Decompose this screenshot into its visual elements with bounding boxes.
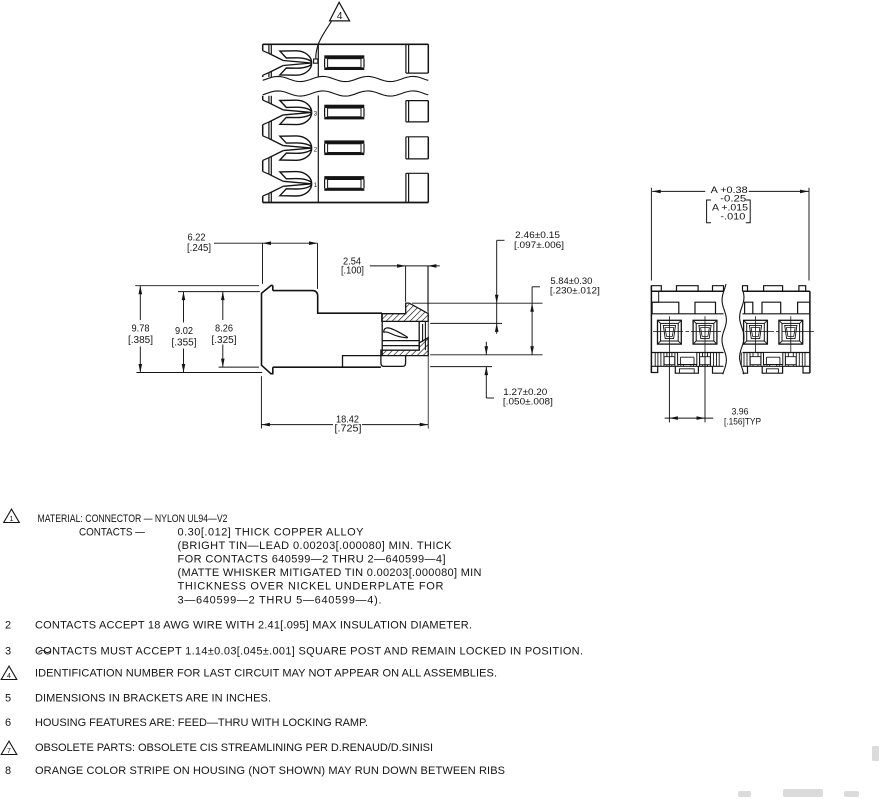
svg-text:4: 4 (7, 673, 11, 680)
svg-text:MATERIAL: CONNECTOR — NYLON UL: MATERIAL: CONNECTOR — NYLON UL94—V2 (38, 513, 228, 525)
rib section 4 (762, 302, 781, 314)
svg-text:[.725]: [.725] (335, 423, 362, 434)
note 2 (5, 620, 472, 632)
svg-text:3: 3 (5, 646, 11, 658)
notes block (1, 509, 583, 777)
rib 3 (right edge) (406, 137, 428, 159)
wire entry funnel 1 (269, 51, 312, 75)
dimension 2.54 [.100] (341, 257, 440, 312)
svg-text:6: 6 (5, 717, 11, 729)
note triangle 4 (1, 666, 17, 680)
rib section 3 (745, 302, 753, 314)
scan artifact squiggle on note 3 (39, 650, 51, 652)
dimension 1.27±0.20 [.050±.008] (430, 342, 553, 408)
svg-text:0.30[.012] THICK COPPER ALLOY: 0.30[.012] THICK COPPER ALLOY (178, 527, 365, 539)
contact locking ramp and top band (hatched) (382, 303, 428, 321)
break line (wavy) upper (263, 76, 429, 81)
wedge between wire entries 3 and 4 (262, 160, 264, 171)
svg-text:(MATTE WHISKER MITIGATED TIN 0: (MATTE WHISKER MITIGATED TIN 0.00203[.00… (178, 567, 482, 579)
band2 left step (651, 291, 658, 302)
faint scan remnants (738, 746, 879, 797)
contact cavity 1 (658, 316, 682, 352)
wire (317, 96, 319, 203)
rib 2 (right edge) (406, 101, 428, 122)
svg-text:ORANGE COLOR STRIPE ON HOUSING: ORANGE COLOR STRIPE ON HOUSING (NOT SHOW… (35, 765, 505, 777)
end view break line left (722, 284, 726, 374)
contact window 2 (324, 105, 364, 120)
top plan view of connector housing (263, 2, 429, 202)
dimension 9.02 [.355] (172, 292, 260, 373)
svg-text:FOR CONTACTS 640599—2 THRU 2—6: FOR CONTACTS 640599—2 THRU 2—640599—4] (178, 554, 446, 566)
end view right edge (809, 291, 811, 373)
note triangle 1 (4, 509, 20, 523)
end view left edge (650, 286, 652, 373)
dimension 2.46±0.15 [.097±.006] (412, 230, 564, 334)
polarizing tab 2 (677, 286, 699, 292)
note 8 (5, 765, 505, 777)
dimension 5.84±0.30 [.230±.012] (430, 276, 600, 355)
contact cavity (382, 314, 425, 356)
dimension 8.26 [.325] (212, 292, 260, 368)
polarizing tab 3 (713, 286, 724, 292)
wedge between wire entries 1 and 2 (262, 75, 264, 77)
svg-text:CONTACTS —: CONTACTS — (79, 527, 145, 539)
dimension 3.96 [.156]TYP (665, 353, 761, 428)
comb bottom line (651, 365, 723, 367)
svg-text:[.097±.006]: [.097±.006] (514, 240, 564, 251)
svg-text:2: 2 (5, 620, 11, 632)
svg-text:[.325]: [.325] (212, 335, 237, 346)
wire (263, 202, 429, 204)
rib section 5 (798, 302, 810, 314)
wire hole notch (343, 356, 381, 368)
note 5 (5, 693, 271, 705)
break line (wavy) lower (263, 91, 429, 96)
svg-text:[.245]: [.245] (187, 243, 211, 254)
polarizing tab 6 (799, 286, 806, 292)
bottom feet and tabs (651, 366, 810, 373)
wire (317, 44, 319, 76)
wire entry funnel 4 (269, 172, 312, 196)
dimension 18.42 [.725] (261, 266, 428, 434)
identification number square (circuit 4) (314, 59, 318, 63)
comb slots (655, 353, 805, 367)
svg-text:CONTACTS MUST ACCEPT 1.14±0.03: CONTACTS MUST ACCEPT 1.14±0.03[.045±.001… (35, 646, 583, 658)
housing tab bottom-left (262, 196, 264, 202)
contact window 3 (324, 140, 364, 155)
svg-text:8.26: 8.26 (215, 324, 233, 335)
note 6 (5, 717, 368, 729)
svg-text:6.22: 6.22 (188, 232, 206, 243)
rib band line (651, 313, 723, 315)
dimension 6.22 [.245] (187, 232, 318, 289)
wire entry funnel 2 (269, 100, 312, 124)
contact bottom band (hatched) (381, 338, 428, 356)
wire entry funnel 3 (269, 136, 312, 160)
dimension A +0.38/-0.25 (651, 185, 809, 281)
end view top edge (651, 290, 723, 292)
svg-text:DIMENSIONS IN BRACKETS ARE IN: DIMENSIONS IN BRACKETS ARE IN INCHES. (35, 693, 271, 705)
horizontal centerline (653, 331, 814, 333)
wedge between wire entries 2 and 3 (262, 125, 264, 136)
note triangle 7 (1, 741, 17, 755)
svg-text:3—640599—2 THRU 5—640599—4).: 3—640599—2 THRU 5—640599—4). (178, 595, 382, 607)
leader from balloon to id square (316, 21, 332, 59)
svg-text:IDENTIFICATION NUMBER FOR LAST: IDENTIFICATION NUMBER FOR LAST CIRCUIT M… (35, 668, 497, 680)
end view break line right (740, 291, 744, 374)
housing tab top-left (262, 44, 264, 50)
body bottom edge (273, 366, 381, 368)
svg-text:THICKNESS OVER NICKEL UNDERPLA: THICKNESS OVER NICKEL UNDERPLATE FOR (178, 581, 444, 593)
svg-text:9.02: 9.02 (175, 326, 193, 337)
contact window 1 (324, 55, 364, 70)
wire (263, 43, 429, 45)
svg-text:-.010: -.010 (720, 211, 745, 222)
svg-text:1: 1 (10, 516, 14, 523)
svg-text:HOUSING FEATURES ARE: FEED—THR: HOUSING FEATURES ARE: FEED—THRU WITH LOC… (35, 717, 368, 729)
polarizing tab 4 (743, 286, 748, 292)
svg-text:4: 4 (337, 11, 343, 22)
svg-text:CONTACTS ACCEPT 18 AWG WIRE WI: CONTACTS ACCEPT 18 AWG WIRE WITH 2.41[.0… (35, 620, 472, 632)
rib 4 (right edge) (406, 173, 428, 202)
bracketed A +.015/-.010 (707, 200, 751, 223)
polarizing tab 1 (651, 286, 661, 292)
contact cavity 3 (744, 316, 768, 352)
svg-text:[.156]TYP: [.156]TYP (724, 417, 761, 428)
contact cavity 4 (779, 316, 803, 352)
svg-text:[.050±.008]: [.050±.008] (503, 396, 553, 407)
svg-text:[.385]: [.385] (128, 335, 153, 346)
flange outline (262, 285, 273, 373)
contact cavity 2 (693, 316, 717, 352)
contact window 4 (324, 176, 364, 191)
flag note 4 balloon triangle (330, 2, 350, 22)
contact spring beam (384, 328, 408, 338)
side section view (262, 285, 429, 373)
cavity band bottom line (651, 352, 723, 354)
svg-text:[.100]: [.100] (341, 266, 364, 277)
svg-text:[.230±.012]: [.230±.012] (550, 286, 600, 297)
rib 1 (right edge) (406, 44, 428, 73)
svg-text:OBSOLETE PARTS: OBSOLETE CIS S: OBSOLETE PARTS: OBSOLETE CIS STREAMLININ… (35, 742, 433, 754)
svg-text:9.78: 9.78 (132, 324, 150, 335)
note 1 text (38, 513, 482, 607)
end (mating face) view (651, 185, 814, 428)
rib section 2 (695, 302, 716, 314)
contact tail (381, 356, 406, 367)
svg-text:5: 5 (5, 693, 11, 705)
body top profile (273, 291, 382, 314)
polarizing tab 5 (764, 286, 783, 292)
rib section 1 (652, 302, 679, 314)
svg-text:[.355]: [.355] (172, 337, 197, 348)
svg-text:7: 7 (7, 748, 11, 755)
svg-text:(BRIGHT TIN—LEAD 0.00203[.0000: (BRIGHT TIN—LEAD 0.00203[.000080] MIN. T… (178, 540, 453, 552)
note 3 (5, 646, 583, 658)
dimension 9.78 [.385] (128, 286, 262, 373)
svg-text:8: 8 (5, 765, 11, 777)
